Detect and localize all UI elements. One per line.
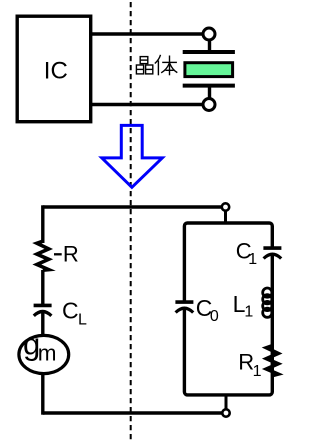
capacitor C0 top plate <box>175 300 193 304</box>
svg-text:1: 1 <box>244 304 253 321</box>
inductor L1 coil loop 4 <box>263 308 272 317</box>
node: bottom rail of equivalent circuit <box>43 411 223 414</box>
crystal X1 body <box>185 63 233 77</box>
svg-text:C: C <box>62 298 79 324</box>
inductor L1 coil loop 3 <box>263 301 272 310</box>
crystal bottom terminal circle <box>203 99 215 111</box>
wire resistor to capacitor CL <box>41 270 44 304</box>
capacitor C0 curved plate <box>176 308 194 312</box>
svg-text:0: 0 <box>210 308 219 325</box>
inductor L1 coil loop 1 <box>263 288 272 297</box>
svg-text:IC: IC <box>44 58 68 85</box>
capacitor C1 top plate <box>263 246 281 250</box>
capacitor CL top plate <box>34 304 52 308</box>
crystal equivalent box <box>184 223 272 395</box>
wire CL to gm source <box>41 313 44 338</box>
white gap for capacitor C1 <box>264 248 280 255</box>
white gap for capacitor C0 <box>176 302 192 309</box>
label 晶体 (crystal), char 体 drawn as strokes <box>155 55 178 76</box>
wire crystal bottom plate to terminal <box>208 86 211 99</box>
node: top rail of equivalent circuit <box>43 205 222 208</box>
wire bottom node stub <box>225 395 228 413</box>
capacitor CL curved plate <box>34 312 52 316</box>
dashed symmetry axis <box>130 2 132 442</box>
wire top node stub <box>224 207 227 223</box>
wire terminal to crystal top plate <box>208 40 211 53</box>
wire gm to bottom rail <box>41 373 44 415</box>
gm source ellipse <box>19 335 69 373</box>
blue hollow arrow (transform) <box>102 125 163 187</box>
top node terminal circle <box>222 203 229 210</box>
bottom node terminal circle <box>222 409 229 416</box>
capacitor C1 curved plate <box>264 254 282 258</box>
svg-text:1: 1 <box>253 363 262 380</box>
resistor R1 <box>266 346 278 376</box>
svg-text:R: R <box>63 242 79 267</box>
inductor L1 coil loop 2 <box>263 295 272 304</box>
svg-text:1: 1 <box>248 251 257 268</box>
crystal top terminal circle <box>203 28 215 40</box>
wire IC pin2 to crystal bottom terminal <box>91 103 203 106</box>
wire left branch top <box>41 205 44 243</box>
svg-text:L: L <box>78 312 87 329</box>
resistor -R <box>37 241 49 270</box>
label 晶体 (crystal), char 晶 drawn as strokes <box>136 57 152 74</box>
svg-text:m: m <box>38 340 57 365</box>
wire IC pin1 to crystal top terminal <box>91 32 203 35</box>
crystal X1 bottom plate <box>183 84 235 88</box>
crystal X1 top plate <box>183 50 235 54</box>
label -R <box>54 253 62 255</box>
IC block U1 <box>17 16 91 122</box>
